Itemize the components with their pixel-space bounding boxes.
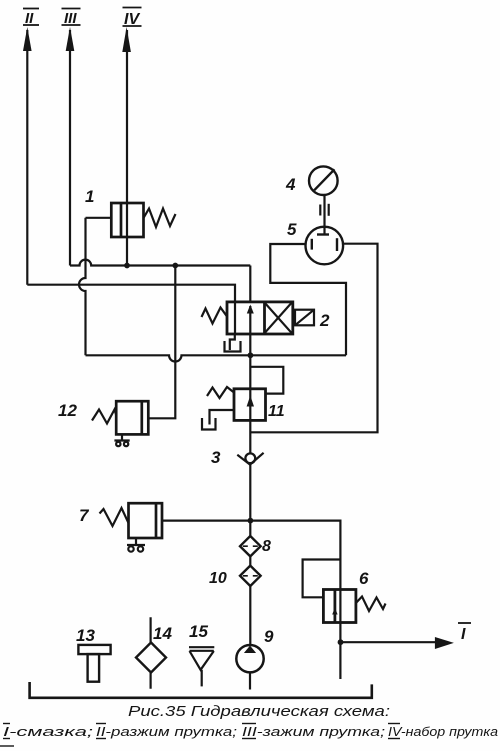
node dot H1/V5	[172, 263, 178, 269]
arrowhead IV	[122, 27, 131, 52]
node dot main/H10	[248, 518, 254, 524]
wire H1 corner down to valve 2	[249, 266, 251, 302]
pressure switch 5	[306, 227, 344, 265]
arrowhead I	[435, 637, 454, 649]
svg-text:I: I	[461, 626, 466, 643]
svg-text:6: 6	[359, 569, 369, 588]
node I label	[458, 623, 471, 643]
check valve 3	[245, 453, 255, 463]
svg-text:4: 4	[285, 175, 296, 194]
wire H13 to outlet I	[341, 641, 437, 643]
solenoid of valve 2	[295, 310, 314, 326]
valve 6 flow arrow	[332, 608, 337, 615]
filter 10	[240, 566, 261, 586]
tank symbol valve 2	[225, 341, 241, 352]
svg-text:Рис.35 Гидравлическая схема:: Рис.35 Гидравлическая схема:	[128, 704, 390, 720]
valve 2 X cell	[265, 303, 292, 334]
main wire valve2 to valve 11	[249, 334, 251, 389]
spring of valve 7	[100, 508, 129, 526]
valve 2 body	[227, 302, 293, 334]
svg-text:III: III	[64, 10, 77, 27]
restrictor ticks	[319, 205, 321, 216]
drain of valve 11	[210, 410, 235, 425]
wire H1 y=265.5 with hop over x=85.5	[70, 260, 250, 266]
plug 13	[78, 645, 110, 682]
wire V10 through valve 6	[339, 520, 341, 680]
svg-text:12: 12	[58, 401, 77, 420]
valve 11 body	[234, 389, 266, 421]
svg-text:8: 8	[262, 538, 271, 555]
wire II vertical	[26, 30, 28, 285]
spring of valve 12	[92, 410, 117, 424]
arrowhead II	[23, 27, 32, 51]
gauge 4	[309, 166, 338, 195]
wire between filters	[249, 556, 251, 565]
filter 8	[240, 536, 261, 556]
spring of valve 11	[207, 387, 234, 398]
gauge stem wire	[323, 195, 325, 234]
wire V5 x=175.3 down to valve 12	[148, 266, 175, 419]
node dot IV/H1	[124, 263, 130, 269]
node dot main/H3	[248, 352, 254, 358]
svg-text:II: II	[25, 10, 34, 27]
pilot wire valve 1	[86, 217, 112, 219]
svg-text:1: 1	[85, 187, 94, 206]
valve 6 pilot loop	[303, 560, 341, 598]
svg-text:2: 2	[319, 311, 330, 330]
wire H10 y=520.6	[162, 519, 340, 521]
svg-text:7: 7	[79, 506, 90, 525]
vent feet of valve 7	[127, 538, 145, 545]
svg-text:III-зажим прутка;: III-зажим прутка;	[242, 724, 386, 739]
pump 9 bottom stem	[249, 672, 251, 689]
pilot loop valve 11	[250, 367, 283, 394]
arrowhead III	[66, 27, 75, 51]
wire III vertical	[69, 30, 71, 266]
vent feet of valve 12	[114, 434, 129, 440]
svg-text:15: 15	[189, 622, 208, 641]
funnel 15	[189, 647, 214, 670]
valve 12 body	[116, 401, 148, 434]
drain of valve 2	[230, 334, 235, 350]
bracket	[30, 682, 372, 698]
pump 9	[236, 645, 263, 672]
main wire check valve to H10	[249, 464, 251, 537]
node dot V10/H13	[338, 639, 344, 645]
svg-text:11: 11	[268, 403, 285, 420]
wire pilot drop x=85.5 with jog at y=285	[79, 218, 86, 355]
svg-text:14: 14	[153, 624, 172, 643]
main wire valve 11 to check valve	[249, 420, 251, 453]
node III label	[62, 9, 81, 28]
svg-text:9: 9	[264, 627, 274, 646]
svg-text:I-смазка;: I-смазка;	[3, 724, 94, 739]
svg-text:IV-набор прутка: IV-набор прутка	[388, 724, 498, 739]
spring of valve 1	[144, 209, 176, 228]
wire H3 y=355.3 with hop under x=175.3	[86, 355, 347, 361]
svg-text:13: 13	[76, 626, 95, 645]
svg-text:II-разжим прутка;: II-разжим прутка;	[96, 724, 237, 739]
wire IV vertical	[126, 30, 128, 266]
valve 2 flow arrow	[249, 306, 251, 334]
tank symbol valve 11	[202, 418, 216, 430]
node II label	[23, 9, 39, 28]
filter 14	[136, 643, 166, 673]
node IV label	[123, 8, 142, 29]
svg-text:5: 5	[287, 220, 297, 239]
wire circle5 left port	[270, 244, 346, 355]
wire filter 10 to pump 9	[249, 586, 251, 645]
spring of valve 2	[202, 308, 228, 324]
wire circle5 right port	[250, 244, 377, 433]
valve 11 flow arrow	[249, 389, 251, 421]
wire H2 y=284.7 from II to valve 2 port	[27, 285, 235, 302]
valve 1 body	[111, 203, 143, 237]
caption numeral marks	[0, 724, 400, 747]
valve 6 body	[323, 590, 356, 623]
valve 7 body	[129, 503, 163, 538]
svg-text:IV: IV	[124, 11, 140, 28]
svg-text:10: 10	[209, 570, 227, 587]
svg-text:3: 3	[211, 448, 221, 467]
valve 2 left cell port line	[234, 303, 236, 334]
spring of valve 6	[356, 597, 386, 612]
